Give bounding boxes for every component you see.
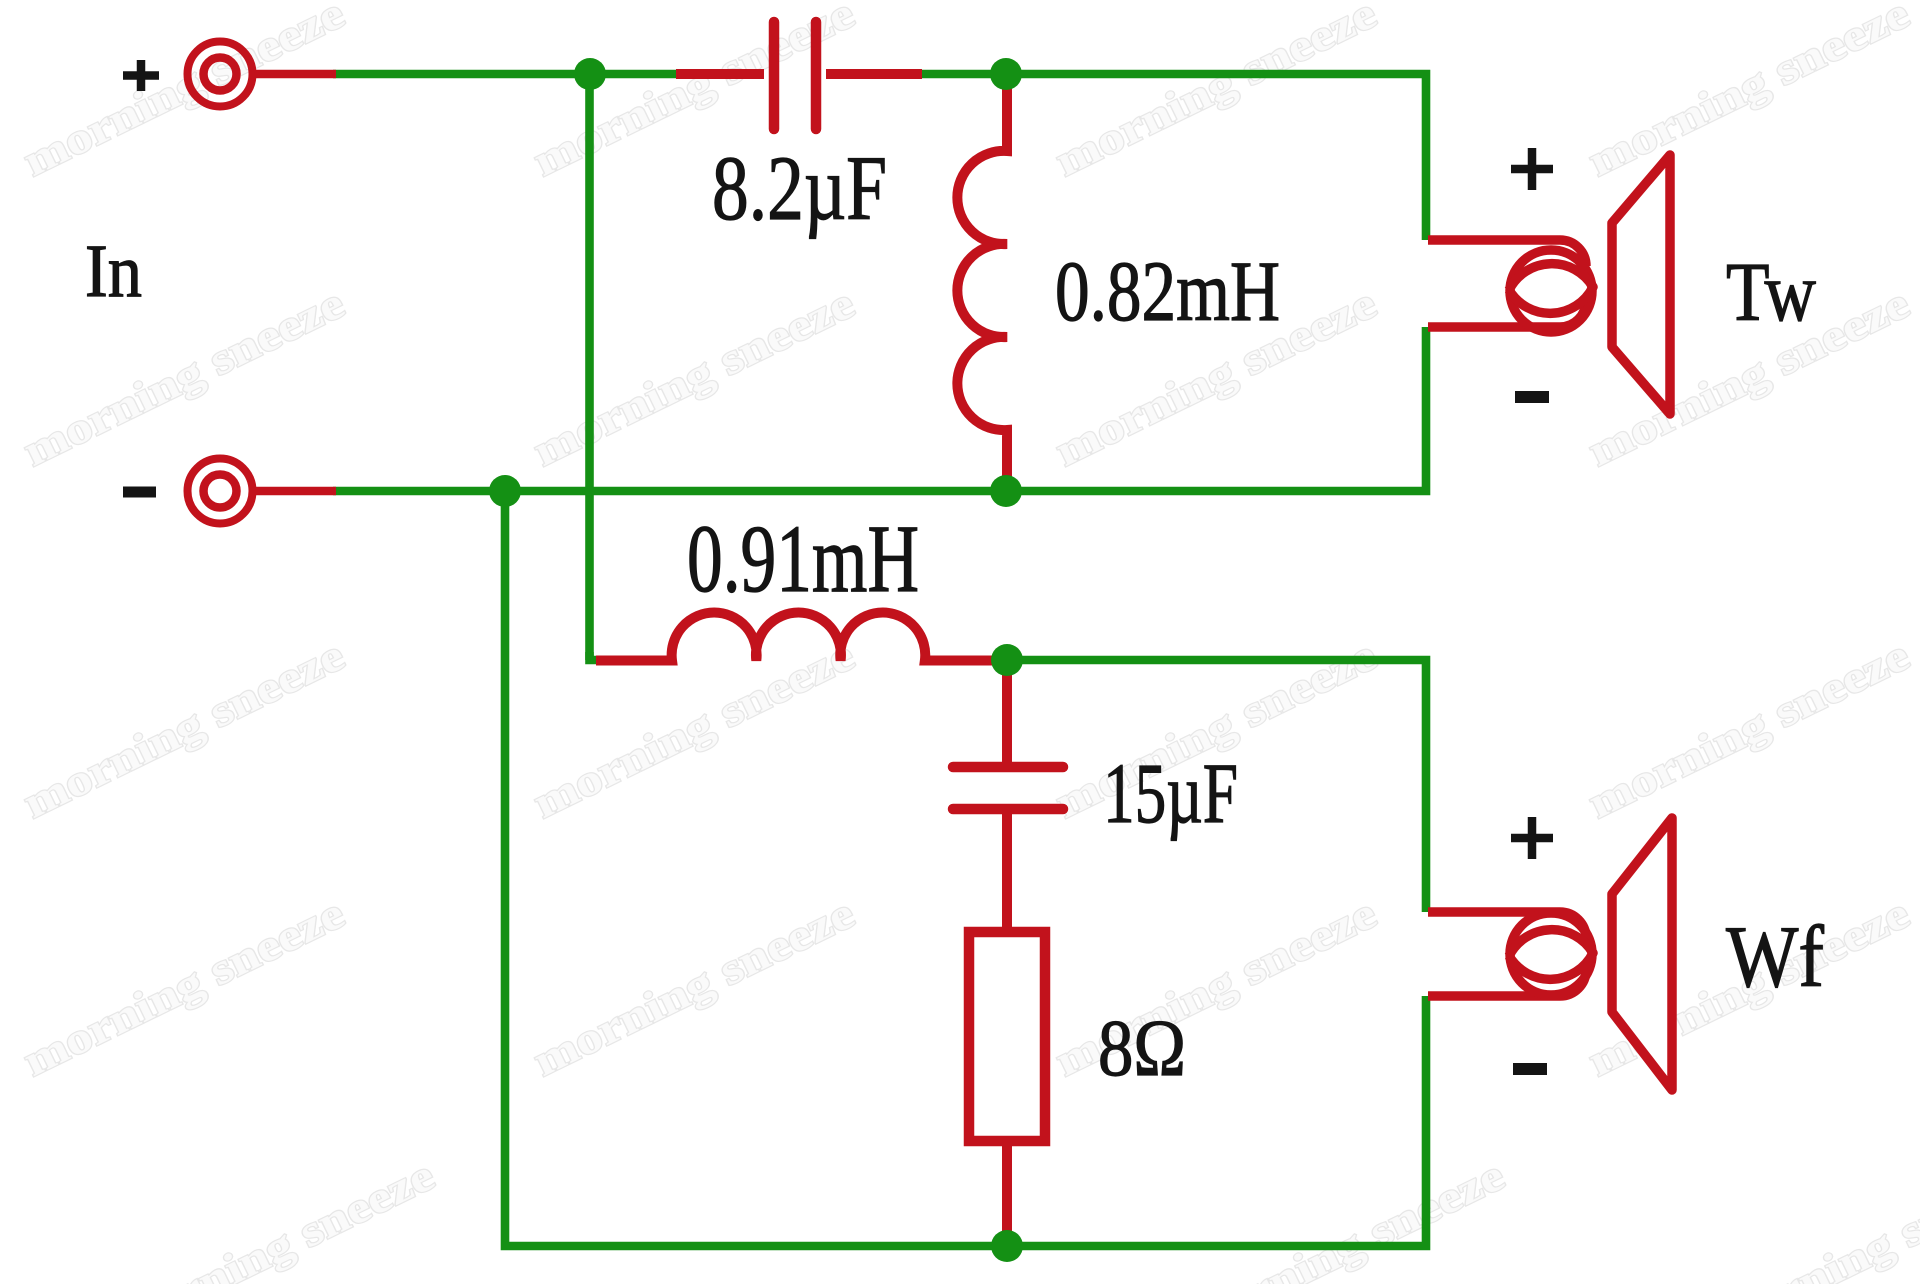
label minus tweeter — [1515, 391, 1549, 403]
svg-text:0.82mH: 0.82mH — [1055, 243, 1280, 339]
label minus woofer — [1513, 1063, 1547, 1075]
node top junction A — [574, 58, 606, 90]
svg-text:morning sneeze: morning sneeze — [1706, 1150, 1920, 1284]
speaker Tw tweeter — [1428, 155, 1670, 414]
svg-text:15µF: 15µF — [1103, 745, 1238, 841]
svg-text:morning sneeze: morning sneeze — [16, 630, 352, 827]
woofer plus lead — [1428, 912, 1586, 938]
wire red stub minus — [252, 487, 336, 496]
woofer minus lead — [1428, 970, 1586, 996]
svg-text:8Ω: 8Ω — [1098, 1005, 1186, 1093]
label plus input — [123, 60, 159, 91]
tweeter minus lead — [1428, 301, 1586, 327]
svg-text:In: In — [85, 230, 142, 313]
svg-text:morning sneeze: morning sneeze — [1176, 1150, 1512, 1284]
tweeter horn trapezoid — [1612, 155, 1670, 414]
inductor L1 0.82mH — [957, 82, 1007, 485]
wire vertical from top junction to low-pass corner — [585, 74, 594, 660]
wire top rail green left — [333, 70, 676, 79]
wire red stub plus — [252, 70, 336, 79]
wire cap to resistor — [1002, 812, 1012, 935]
inductor L2 0.91mH — [596, 613, 1000, 661]
svg-text:morning sneeze: morning sneeze — [1581, 630, 1917, 827]
speaker Wf woofer — [1428, 818, 1672, 1090]
svg-text:morning sneeze: morning sneeze — [526, 278, 862, 475]
node top junction B — [990, 58, 1022, 90]
capacitor C1 8.2uF plates — [774, 22, 816, 129]
capacitor C2 15uF plates — [953, 767, 1063, 809]
wire left vertical and bottom rail — [505, 491, 1426, 1246]
wire top rail green right + corner down to tweeter plus lead — [920, 74, 1426, 240]
wire woofer feed rail — [1007, 660, 1426, 912]
terminal In + — [188, 42, 253, 107]
node woofer feed junction — [991, 644, 1023, 676]
label minus input — [123, 487, 156, 498]
svg-text:morning sneeze: morning sneeze — [1048, 0, 1384, 186]
wire red drop from woofer junction — [1002, 668, 1012, 764]
svg-text:Wf: Wf — [1726, 909, 1825, 1006]
woofer horn trapezoid — [1612, 818, 1672, 1090]
svg-text:Tw: Tw — [1726, 246, 1816, 339]
svg-text:8.2µF: 8.2µF — [712, 137, 887, 239]
capacitor C1 8.2uF leads — [676, 69, 764, 79]
node mid junction B — [990, 475, 1022, 507]
wire resistor to bottom junction — [1002, 1141, 1012, 1242]
wire low-pass corner — [590, 652, 601, 660]
svg-text:morning sneeze: morning sneeze — [526, 630, 862, 827]
wire mid rail — [333, 327, 1426, 491]
svg-text:morning sneeze: morning sneeze — [526, 888, 862, 1085]
svg-text:morning sneeze: morning sneeze — [16, 888, 352, 1085]
terminal In - — [188, 459, 253, 524]
tweeter voice coil — [1510, 250, 1592, 332]
tweeter cone lens — [1509, 264, 1593, 314]
node bottom junction — [991, 1230, 1023, 1262]
svg-text:morning sneeze: morning sneeze — [16, 0, 352, 186]
svg-text:morning sneeze: morning sneeze — [106, 1150, 442, 1284]
svg-text:morning sneeze: morning sneeze — [16, 278, 352, 475]
label plus tweeter — [1511, 148, 1553, 190]
woofer cone lens — [1509, 930, 1593, 980]
tweeter plus lead — [1428, 240, 1586, 266]
svg-text:morning sneeze: morning sneeze — [1581, 0, 1917, 186]
node mid junction A — [489, 475, 521, 507]
label plus woofer — [1511, 817, 1553, 859]
resistor R1 8ohm — [969, 932, 1045, 1141]
svg-text:0.91mH: 0.91mH — [687, 505, 919, 612]
woofer voice coil — [1510, 913, 1592, 995]
